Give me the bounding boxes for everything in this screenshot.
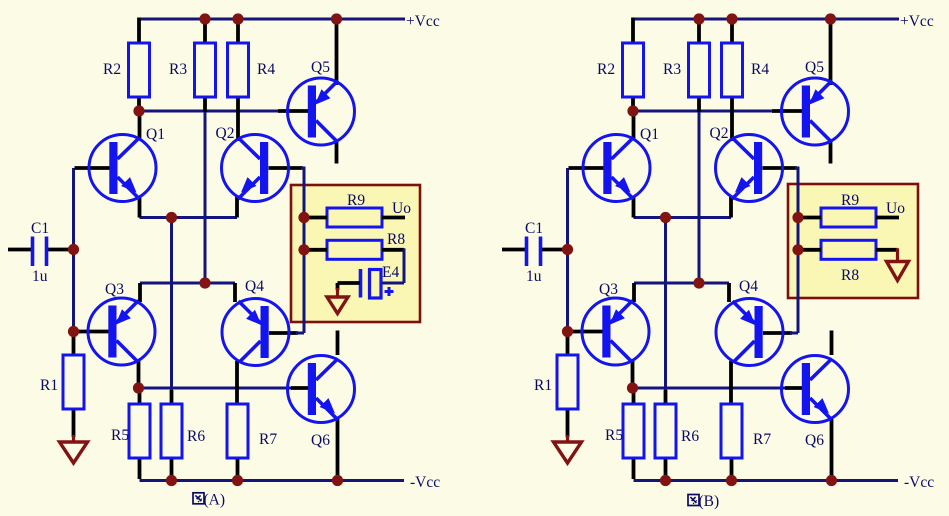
transistor Q6 NPN (B) [782, 356, 849, 423]
transistor Q4 PNP mirrored (B) [716, 299, 783, 366]
pin Q1 collector lead (A) [138, 111, 142, 140]
pin C1 left lead (A) [8, 248, 32, 252]
wire feedback vertical (A) [303, 167, 306, 334]
pin Q6 base lead (A) [291, 386, 309, 390]
junction R2-Q1c-Q5b (A) [133, 105, 144, 116]
pin R2.2 bottom (A) [137, 97, 141, 112]
ground below R1 (B) [554, 435, 582, 463]
svg-text:Uo: Uo [886, 200, 905, 217]
junction emitters Q1Q2 (B) [660, 212, 671, 223]
pin Q1 collector lead (B) [632, 111, 636, 140]
junction feedback-R9 (A) [298, 212, 309, 223]
pin Q2 collector lead (B) [730, 97, 734, 141]
pin R6.1 top (B) [664, 390, 668, 404]
wire Q4 base corner (A) [296, 332, 304, 335]
svg-text:Q6: Q6 [805, 432, 824, 449]
pin C1 right lead (B) [542, 248, 568, 252]
junction feedback-R9 (B) [792, 212, 803, 223]
transistor Q5 PNP (B) [782, 78, 849, 145]
transistor Q3 PNP (A) [88, 298, 155, 365]
svg-text:R6: R6 [681, 428, 699, 445]
ground inside box (B) [887, 248, 909, 280]
pin Q5 base lead (A) [278, 109, 309, 113]
svg-text:Q3: Q3 [599, 281, 618, 298]
resistor R1 (B) [557, 355, 578, 409]
svg-text:Q4: Q4 [245, 278, 264, 295]
svg-text:R5: R5 [605, 427, 623, 444]
pin R6.2 bottom (A) [170, 458, 174, 479]
svg-text:R3: R3 [663, 61, 681, 78]
wire mid-rail to R6 vertical (A) [170, 218, 173, 405]
pin R9 right lead (A) [382, 216, 405, 220]
junction rail-R4 (A) [232, 13, 243, 24]
pin Q4 collector lead (B) [729, 361, 733, 404]
junction C1-input (B) [562, 244, 573, 255]
pin R5.2 bottom (A) [138, 458, 142, 479]
resistor R3 (A) [195, 43, 216, 97]
junction rail-R3 (B) [693, 13, 704, 24]
pin Q3 base lead (B) [569, 330, 604, 334]
svg-text:-Vcc: -Vcc [410, 474, 440, 491]
pin Q4 emitter lead (B) [727, 283, 731, 302]
junction feedback-R8 (A) [298, 244, 309, 255]
junction Q3c-bias rail (B) [627, 382, 638, 393]
transistor Q4 PNP mirrored (A) [222, 299, 289, 366]
pin R9 right lead (B) [876, 216, 899, 220]
svg-text:R2: R2 [103, 61, 121, 78]
plus mark of E4 (A) [385, 287, 394, 296]
resistor R5 (B) [623, 404, 644, 458]
svg-text:(A): (A) [204, 492, 226, 509]
pin Q2 collector lead (A) [236, 97, 240, 141]
svg-text:1u: 1u [526, 268, 542, 285]
pin R8 right lead (B) [876, 248, 898, 252]
pin R4.1 top (A) [236, 20, 240, 44]
pin R9 left lead (B) [798, 216, 821, 220]
transistor Q1 NPN (B) [583, 135, 650, 202]
resistor R6 (A) [161, 404, 182, 458]
svg-text:(B): (B) [699, 493, 720, 510]
pin Q6 emitter lead (B) [830, 418, 834, 481]
wire Q2 base to feedback node (A) [301, 167, 304, 170]
pin Q4 emitter lead (A) [233, 283, 237, 302]
resistor R2 (B) [623, 43, 644, 97]
resistor R7 (A) [227, 404, 248, 458]
pin R8 right lead (A) [382, 248, 404, 252]
transistor Q5 PNP (A) [288, 78, 355, 145]
pin R3.1 top (B) [697, 20, 701, 44]
wire Q4 base corner (B) [790, 332, 798, 335]
svg-text:C1: C1 [31, 220, 49, 237]
pin R3.1 top (A) [203, 20, 207, 44]
wire input node vertical (B) [566, 168, 569, 335]
capacitor E4 electrolytic (A) [361, 269, 382, 298]
pin R5.2 bottom (B) [632, 458, 636, 479]
pin Q6 collector stub (B) [830, 331, 834, 356]
junction input-Q3b-R1 (B) [562, 326, 573, 337]
pin Q1 base lead (A) [75, 166, 111, 170]
svg-text:Uo: Uo [392, 200, 411, 217]
svg-text:R2: R2 [597, 61, 615, 78]
pin R9 left lead (A) [304, 216, 327, 220]
wire +Vcc rail (A) [139, 18, 405, 21]
wire Q3-Q4 emitter link (B) [634, 282, 729, 285]
pin Q2 emitter lead (B) [729, 196, 733, 218]
pin Q2 base lead (A) [269, 166, 304, 170]
pin Q6 collector stub (A) [336, 331, 340, 356]
transistor Q3 PNP (B) [582, 298, 649, 365]
pin Q5 collector stub (A) [335, 141, 339, 164]
junction Q3c-bias rail (A) [133, 382, 144, 393]
pin C1 left lead (B) [502, 248, 526, 252]
svg-text:R4: R4 [257, 61, 275, 78]
pin R4.1 top (B) [730, 20, 734, 44]
junction rail-Q5e (A) [331, 13, 342, 24]
wire -Vcc rail (A) [140, 479, 405, 482]
junction R3-emitters Q3Q4 (A) [199, 277, 210, 288]
pin Q4 base lead (B) [763, 331, 792, 335]
pin R7.2 bottom (A) [236, 458, 240, 479]
pin R5.1 top (B) [632, 388, 636, 404]
wire Q1-Q2 emitter link (A) [140, 216, 238, 219]
svg-text:R3: R3 [169, 61, 187, 78]
resistor R8 (B) [821, 240, 876, 259]
junction -Vcc R6 (A) [166, 475, 177, 486]
svg-text:R7: R7 [259, 431, 277, 448]
pin Q5 collector stub (B) [829, 141, 833, 164]
junction -Vcc R6 (B) [660, 475, 671, 486]
pin E4 negative lead (A) [338, 281, 361, 285]
resistor R2 (A) [129, 43, 150, 97]
capacitor C1 (A) [33, 237, 47, 267]
svg-text:R9: R9 [841, 192, 859, 209]
pin Q5 emitter lead (A) [335, 20, 339, 85]
pin R8 left lead (A) [304, 248, 327, 252]
transistor Q2 NPN mirrored (A) [222, 135, 289, 202]
svg-text:R7: R7 [753, 431, 771, 448]
wire node B1 horizontal (A) [139, 110, 280, 113]
resistor R6 (B) [655, 404, 676, 458]
svg-text:-Vcc: -Vcc [904, 474, 934, 491]
svg-text:R9: R9 [347, 192, 365, 209]
pin Q3 emitter lead (A) [138, 283, 142, 302]
ground inside box (A) [327, 288, 348, 314]
pin R1.1 top (A) [72, 333, 76, 356]
resistor R3 (B) [689, 43, 710, 97]
resistor R9 (B) [821, 208, 876, 227]
pin Q5 emitter lead (B) [829, 20, 833, 85]
resistor R4 (A) [228, 43, 249, 97]
wire +Vcc rail (B) [633, 18, 899, 21]
wire feedback vertical (B) [797, 167, 800, 334]
wire Q1-Q2 emitter link (B) [634, 216, 732, 219]
pin Q3 collector lead (B) [631, 360, 635, 388]
pin Q2 base lead (B) [763, 166, 798, 170]
resistor R7 (B) [721, 404, 742, 458]
svg-text:Q1: Q1 [146, 126, 165, 143]
pin Q3 emitter lead (B) [632, 283, 636, 302]
svg-text:C1: C1 [525, 220, 543, 237]
pin Q1 base lead (B) [569, 166, 605, 170]
svg-text:Q4: Q4 [739, 278, 758, 295]
wire mid-rail to R6 vertical (B) [664, 218, 667, 405]
junction input-Q3b-R1 (A) [68, 326, 79, 337]
wire -Vcc rail (B) [634, 479, 899, 482]
svg-text:1u: 1u [32, 268, 48, 285]
pin R6.1 top (A) [170, 390, 174, 404]
ground below R1 (A) [60, 435, 88, 463]
wire lower bias rail (A) [139, 387, 294, 390]
transistor Q2 NPN mirrored (B) [716, 135, 783, 202]
svg-text:R8: R8 [841, 267, 859, 284]
junction rail-R4 (B) [726, 13, 737, 24]
pin R1.2 bottom (A) [72, 409, 76, 437]
pin R6.2 bottom (B) [664, 458, 668, 479]
pin Q6 base lead (B) [785, 386, 803, 390]
svg-text:R1: R1 [40, 377, 58, 394]
pin R1.1 top (B) [566, 333, 570, 356]
pin Q2 emitter lead (A) [235, 196, 239, 218]
wire lower bias rail (B) [633, 387, 788, 390]
pin R2.1 top (A) [137, 18, 141, 45]
svg-text:R4: R4 [751, 61, 769, 78]
junction R2-Q1c-Q5b (B) [627, 105, 638, 116]
capacitor C1 (B) [527, 237, 541, 267]
junction -Vcc R7 (B) [726, 475, 737, 486]
junction emitters Q1Q2 (A) [166, 212, 177, 223]
svg-text:Q2: Q2 [710, 125, 729, 142]
junction -Vcc Q6e (A) [332, 475, 343, 486]
resistor R9 (A) [327, 208, 382, 227]
junction -Vcc Q6e (B) [826, 475, 837, 486]
wire input node vertical (A) [72, 168, 75, 335]
pin R8 left lead (B) [798, 248, 821, 252]
svg-text:Q5: Q5 [311, 59, 330, 76]
junction R3-emitters Q3Q4 (B) [693, 277, 704, 288]
wire Q2 base to feedback node (B) [795, 167, 798, 170]
pin Q1 emitter lead (A) [138, 196, 142, 218]
pin Q1 emitter lead (B) [632, 196, 636, 218]
svg-text:R6: R6 [187, 428, 205, 445]
pin Q3 collector lead (A) [137, 360, 141, 388]
svg-text:Q5: Q5 [805, 59, 824, 76]
pin R3.2 bottom (B) [697, 97, 701, 112]
junction -Vcc R7 (A) [232, 475, 243, 486]
pin Q4 collector lead (A) [235, 361, 239, 404]
junction feedback-R8 (B) [792, 244, 803, 255]
wire Q3-Q4 emitter link (A) [140, 282, 235, 285]
pin C1 right lead (A) [48, 248, 74, 252]
svg-text:R5: R5 [111, 427, 129, 444]
highlight box (A) [291, 185, 420, 322]
wire R3 bottom vertical (B) [698, 110, 701, 283]
pin Q4 base lead (A) [269, 331, 298, 335]
pin R2.2 bottom (B) [631, 97, 635, 112]
pin E4 lead corner (A) [336, 283, 340, 290]
pin Q6 emitter lead (A) [336, 418, 340, 481]
svg-text:+Vcc: +Vcc [406, 13, 440, 30]
svg-text:E4: E4 [382, 264, 399, 281]
resistor R1 (A) [63, 355, 84, 409]
svg-text:Q2: Q2 [216, 125, 235, 142]
junction C1-input (A) [68, 244, 79, 255]
svg-text:Q3: Q3 [105, 281, 124, 298]
wire node B1 horizontal (B) [633, 110, 774, 113]
wire R8 to E4 horizontal (A) [380, 282, 404, 285]
junction rail-Q5e (B) [825, 13, 836, 24]
caption 图(B) [688, 493, 719, 510]
resistor R8 (A) [327, 240, 382, 259]
pin R3.2 bottom (A) [203, 97, 207, 112]
svg-text:R1: R1 [534, 377, 552, 394]
wire R8 to E4 vertical (A) [403, 248, 406, 283]
caption 图(A) [193, 492, 225, 509]
pin Q5 base lead (B) [772, 109, 803, 113]
pin R7.2 bottom (B) [730, 458, 734, 479]
svg-text:R8: R8 [387, 231, 405, 248]
wire R3 bottom vertical (A) [204, 110, 207, 283]
svg-text:+Vcc: +Vcc [900, 13, 934, 30]
svg-text:Q6: Q6 [311, 432, 330, 449]
junction rail-R3 (A) [199, 13, 210, 24]
transistor Q1 NPN (A) [89, 135, 156, 202]
pin Q3 base lead (A) [75, 330, 110, 334]
svg-text:Q1: Q1 [640, 126, 659, 143]
transistor Q6 NPN (A) [288, 356, 355, 423]
resistor R4 (B) [722, 43, 743, 97]
pin R1.2 bottom (B) [566, 409, 570, 437]
highlight box (B) [788, 184, 918, 298]
resistor R5 (A) [129, 404, 150, 458]
pin R2.1 top (B) [631, 18, 635, 45]
pin R5.1 top (A) [138, 388, 142, 404]
